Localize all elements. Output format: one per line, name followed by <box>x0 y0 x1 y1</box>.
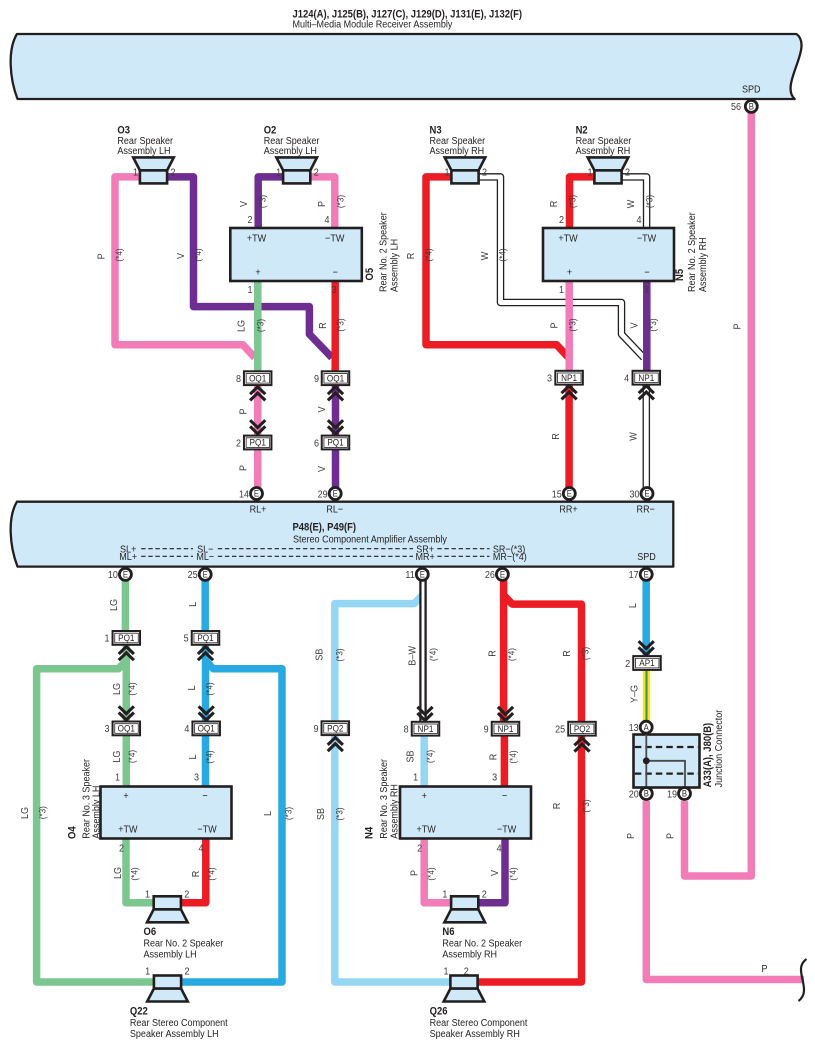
wire R from N2 pin1 to N5 pin2 <box>570 177 595 230</box>
chevron below PQ2 pin9 <box>328 738 343 745</box>
pin 56 circle B on receiver <box>745 100 757 112</box>
internal wire branch to pin19 <box>646 761 685 788</box>
junction connector A33 J80 box <box>634 735 700 788</box>
svg-text:V: V <box>175 253 187 259</box>
svg-text:(*3): (*3) <box>334 807 345 820</box>
wire L from amplifier pin17 to AP1 pin2 <box>642 580 650 657</box>
wire V from O3 pin2 to splice above OQ1 pin9 <box>167 177 333 358</box>
svg-text:30: 30 <box>629 489 640 501</box>
svg-text:B: B <box>682 788 688 799</box>
pin 19 circle B <box>679 788 691 800</box>
wire LG from amplifier pin10 to PQ1 pin1 <box>122 580 130 631</box>
wire P from N4 pin2 to N6 pin1 <box>424 839 451 903</box>
svg-text:(*4): (*4) <box>427 648 438 661</box>
connector PQ2 pin25 <box>568 722 596 736</box>
svg-text:20: 20 <box>629 789 640 801</box>
svg-text:4: 4 <box>184 724 190 736</box>
svg-text:P: P <box>316 201 328 207</box>
chevron above AP1 pin2 <box>639 647 654 654</box>
svg-text:O6: O6 <box>144 927 157 939</box>
svg-text:E: E <box>644 488 650 499</box>
svg-text:−TW: −TW <box>325 233 345 245</box>
svg-text:E: E <box>333 488 339 499</box>
svg-text:P: P <box>625 833 637 839</box>
svg-text:−: − <box>502 790 508 802</box>
box O4 Rear No.3 Speaker Assembly LH <box>101 787 232 839</box>
svg-text:N4: N4 <box>364 827 376 839</box>
chevron below PQ2 pin25 <box>574 738 589 745</box>
svg-text:(*4): (*4) <box>192 248 203 261</box>
svg-text:LG: LG <box>236 320 248 332</box>
box N5 Rear No.2 Speaker Assembly RH <box>543 228 674 281</box>
svg-text:B: B <box>749 101 755 112</box>
svg-text:1: 1 <box>443 966 448 978</box>
svg-text:+TW: +TW <box>247 233 267 245</box>
wire L from amplifier pin25 to PQ1 pin5 <box>201 580 209 631</box>
svg-text:(*3): (*3) <box>335 318 346 331</box>
wire LG from PQ1 pin1 to O4 pin1 <box>123 645 131 788</box>
connector PQ1 pin6 <box>322 436 350 450</box>
wire V from O2 pin1 to O5 pin2 <box>258 177 283 230</box>
svg-text:4: 4 <box>497 843 503 855</box>
svg-text:P: P <box>238 408 250 414</box>
svg-text:P: P <box>409 870 421 876</box>
svg-text:3: 3 <box>643 284 649 296</box>
wire L branch from splice to Q22 pin2 <box>181 661 282 983</box>
svg-text:NP1: NP1 <box>498 723 514 734</box>
svg-text:B: B <box>644 788 650 799</box>
receiver assembly J124-J132 bus bar <box>11 34 802 99</box>
svg-text:O5: O5 <box>364 268 376 281</box>
wire R from NP1 pin3 to amplifier pin15 <box>565 384 573 489</box>
pin 11 circle E <box>416 568 428 580</box>
svg-text:1: 1 <box>413 772 418 784</box>
svg-text:P48(E), P49(F): P48(E), P49(F) <box>293 522 357 534</box>
svg-text:E: E <box>500 569 506 580</box>
svg-text:Y–G: Y–G <box>629 685 641 703</box>
svg-text:(*4): (*4) <box>497 248 508 261</box>
svg-text:1: 1 <box>442 889 447 901</box>
svg-text:R: R <box>548 201 560 208</box>
svg-text:E: E <box>123 569 129 580</box>
chevron below PQ1 pin5 <box>198 647 213 654</box>
dashed link ML row <box>141 555 193 557</box>
svg-text:19: 19 <box>667 789 677 801</box>
connector NP1 pin9 <box>492 722 520 736</box>
svg-text:9: 9 <box>484 724 489 736</box>
connector AP1 pin2 <box>633 656 661 670</box>
svg-text:L: L <box>262 810 274 816</box>
svg-text:3: 3 <box>547 373 553 385</box>
connector PQ1 pin5 <box>192 631 220 645</box>
svg-text:(*4): (*4) <box>204 682 215 695</box>
svg-text:Q22: Q22 <box>130 1006 148 1018</box>
svg-text:E: E <box>567 488 573 499</box>
svg-text:ML−: ML− <box>196 552 214 564</box>
junction splice dot <box>643 757 650 764</box>
pin 25 circle E <box>199 568 211 580</box>
svg-text:O4: O4 <box>67 826 79 839</box>
svg-text:(*3): (*3) <box>567 318 578 331</box>
svg-text:2: 2 <box>119 843 124 855</box>
svg-text:V: V <box>238 201 250 207</box>
svg-text:(*4): (*4) <box>129 867 140 880</box>
svg-text:L: L <box>628 603 640 609</box>
svg-text:(*4): (*4) <box>127 682 138 695</box>
svg-text:2: 2 <box>314 167 319 179</box>
dashed bus line 1 in junction <box>635 746 698 748</box>
amplifier P48 P49 bus bar <box>11 502 674 567</box>
wire R from O5 pin3 to OQ1 pin9 <box>331 280 339 371</box>
svg-text:R: R <box>405 253 417 260</box>
svg-text:14: 14 <box>239 489 250 501</box>
svg-text:LG: LG <box>19 807 31 819</box>
svg-text:P: P <box>665 833 677 839</box>
svg-text:(*3): (*3) <box>567 195 578 208</box>
svg-text:SPD: SPD <box>742 84 761 96</box>
svg-text:4: 4 <box>624 373 630 385</box>
svg-text:E: E <box>644 569 650 580</box>
svg-text:(*4): (*4) <box>425 867 436 880</box>
wire B&#8211;W from amplifier pin11 to NP1 pin8 <box>419 580 427 722</box>
svg-text:RR−: RR− <box>637 504 656 516</box>
svg-text:OQ1: OQ1 <box>249 373 266 384</box>
svg-text:(*3): (*3) <box>283 807 294 820</box>
svg-text:(*4): (*4) <box>507 750 518 763</box>
svg-text:(*3): (*3) <box>37 806 48 819</box>
svg-text:2: 2 <box>482 167 487 179</box>
svg-text:P: P <box>549 322 561 328</box>
svg-text:(*3): (*3) <box>580 647 591 660</box>
svg-text:2: 2 <box>625 658 630 670</box>
svg-text:P: P <box>96 253 108 259</box>
chevron below NP1 pin4 <box>639 386 654 393</box>
wire V between OQ1 pin9 and PQ1 pin6 <box>332 385 340 436</box>
svg-text:26: 26 <box>485 570 496 582</box>
svg-text:L: L <box>187 754 199 760</box>
speaker N2 <box>588 157 629 170</box>
svg-text:2: 2 <box>185 966 190 978</box>
wire P from junction pin20 to right edge <box>646 801 804 980</box>
svg-text:LG: LG <box>112 867 124 879</box>
svg-text:13: 13 <box>629 722 640 734</box>
svg-text:SB: SB <box>314 648 326 660</box>
svg-text:−: − <box>202 790 208 802</box>
svg-text:2: 2 <box>247 214 252 226</box>
svg-text:10: 10 <box>108 570 119 582</box>
svg-text:Assembly RH: Assembly RH <box>697 237 709 292</box>
pin 29 circle E <box>329 488 341 500</box>
speaker N6 <box>444 909 485 922</box>
svg-text:2: 2 <box>417 843 422 855</box>
svg-text:Speaker Assembly LH: Speaker Assembly LH <box>130 1028 219 1040</box>
svg-text:W: W <box>625 199 637 208</box>
svg-text:(*3): (*3) <box>257 195 268 208</box>
svg-text:−: − <box>644 267 650 279</box>
wire V from N4 pin4 to N6 pin2 <box>478 839 505 903</box>
pin 26 circle E <box>496 568 508 580</box>
svg-text:(*4): (*4) <box>506 648 517 661</box>
pin 10 circle E <box>119 568 131 580</box>
svg-text:LG: LG <box>112 683 124 695</box>
svg-text:E: E <box>203 569 209 580</box>
svg-text:SB: SB <box>315 808 327 820</box>
svg-text:NP1: NP1 <box>561 372 577 383</box>
svg-text:LG: LG <box>108 599 120 611</box>
wire LG from O5 pin1 to OQ1 pin8 <box>254 280 262 371</box>
wire L from PQ1 pin5 to O4 pin3 <box>202 645 210 788</box>
svg-text:2: 2 <box>464 966 469 978</box>
svg-text:+TW: +TW <box>558 233 578 245</box>
svg-text:Speaker Assembly RH: Speaker Assembly RH <box>430 1028 520 1040</box>
svg-text:Q26: Q26 <box>430 1006 448 1018</box>
svg-text:(*3): (*3) <box>334 648 345 661</box>
svg-text:W: W <box>628 432 640 441</box>
wire R from N3 pin1 to splice above NP1 pin3 <box>426 177 569 358</box>
svg-text:1: 1 <box>247 284 252 296</box>
wire R branch from splice to PQ2 pin25 <box>504 595 582 721</box>
connector OQ1 pin8 <box>244 371 272 385</box>
connector OQ1 pin4 <box>192 722 220 736</box>
svg-text:1: 1 <box>276 167 281 179</box>
wire P between OQ1 pin8 and PQ1 pin2 <box>254 385 262 436</box>
dashed bus line 2 in junction <box>635 772 698 774</box>
svg-text:RL−: RL− <box>326 504 343 516</box>
wire P from PQ1 pin2 to amplifier pin14 <box>254 450 262 490</box>
svg-text:(*3): (*3) <box>580 799 591 812</box>
chevron above OQ1 pin4 <box>199 713 214 720</box>
svg-text:PQ2: PQ2 <box>574 723 590 734</box>
svg-text:8: 8 <box>236 373 242 385</box>
svg-text:+: + <box>123 790 129 802</box>
svg-text:2: 2 <box>625 167 630 179</box>
svg-text:(*3): (*3) <box>647 318 658 331</box>
svg-text:PQ1: PQ1 <box>250 437 266 448</box>
svg-text:2: 2 <box>482 889 487 901</box>
svg-text:1: 1 <box>104 633 109 645</box>
svg-text:E: E <box>420 569 426 580</box>
wire V from PQ1 pin6 to amplifier pin29 <box>332 450 340 490</box>
svg-text:+TW: +TW <box>118 824 138 836</box>
svg-text:−TW: −TW <box>197 824 217 836</box>
svg-text:NP1: NP1 <box>638 372 654 383</box>
wire R from O4 pin4 to O6 pin2 <box>181 839 206 903</box>
wire SB from PQ2 pin9 to Q26 pin1 <box>335 735 451 982</box>
svg-text:−TW: −TW <box>637 233 657 245</box>
svg-text:9: 9 <box>314 373 319 385</box>
svg-text:(*4): (*4) <box>126 750 137 763</box>
pin 17 circle E <box>640 568 652 580</box>
pin 14 circle E <box>251 488 263 500</box>
svg-text:+: + <box>255 267 261 279</box>
svg-text:56: 56 <box>731 102 742 114</box>
svg-text:AP1: AP1 <box>639 658 654 669</box>
svg-text:(*3): (*3) <box>335 195 346 208</box>
connector OQ1 pin3 <box>113 722 141 736</box>
svg-text:N5: N5 <box>674 269 686 281</box>
chevron above NP1 pin9 <box>498 713 513 720</box>
svg-text:P: P <box>238 465 250 471</box>
svg-text:1: 1 <box>145 966 150 978</box>
svg-text:3: 3 <box>492 772 498 784</box>
svg-text:+TW: +TW <box>416 824 436 836</box>
wire Y&#8211;G from AP1 pin2 to junction pin13 <box>643 670 651 721</box>
speaker O3 <box>133 157 174 170</box>
svg-text:17: 17 <box>629 570 639 582</box>
svg-text:SPD: SPD <box>637 552 656 564</box>
speaker O6 <box>147 909 188 922</box>
svg-text:Assembly LH: Assembly LH <box>264 146 317 158</box>
svg-text:PQ1: PQ1 <box>327 437 343 448</box>
svg-text:R: R <box>550 433 562 440</box>
svg-text:RL+: RL+ <box>250 504 267 516</box>
pin 30 circle E <box>641 488 653 500</box>
connector NP1 pin8 <box>412 722 440 736</box>
wire W from NP1 pin4 to amplifier pin30 <box>643 384 651 489</box>
wire SB branch from amplifier pin11 to PQ2 pin9 <box>335 594 424 721</box>
chevron above OQ1 pin3 <box>119 713 134 720</box>
svg-text:25: 25 <box>188 570 199 582</box>
connector PQ2 pin9 <box>322 721 350 735</box>
svg-text:LG: LG <box>112 751 124 763</box>
svg-text:4: 4 <box>324 214 330 226</box>
svg-text:(*4): (*4) <box>113 248 124 261</box>
svg-text:11: 11 <box>405 570 414 582</box>
wire SB from NP1 pin8 to N4 pin1 <box>420 736 428 788</box>
svg-text:Assembly RH: Assembly RH <box>389 784 401 839</box>
svg-text:2: 2 <box>171 167 176 179</box>
chevron below OQ1 pin9 <box>328 387 343 394</box>
svg-text:P: P <box>732 323 744 329</box>
svg-text:B–W: B–W <box>407 645 419 665</box>
wire P from O3 pin1 to splice above OQ1 pin8 <box>115 177 255 358</box>
pin 13 circle A <box>640 721 652 733</box>
svg-text:V: V <box>316 406 328 412</box>
dashed link SL row <box>141 548 193 550</box>
svg-text:8: 8 <box>404 724 410 736</box>
svg-text:OQ1: OQ1 <box>198 723 215 734</box>
svg-text:3: 3 <box>331 284 337 296</box>
wire R from PQ2 pin25 to Q26 pin2 <box>478 735 582 982</box>
svg-text:9: 9 <box>313 723 318 735</box>
chevron above NP1 pin8 <box>417 713 432 720</box>
svg-text:V: V <box>629 322 641 328</box>
svg-text:1: 1 <box>145 889 150 901</box>
svg-text:15: 15 <box>552 489 563 501</box>
svg-text:R: R <box>488 754 500 761</box>
chevron above PQ1 pin2 <box>250 426 265 433</box>
box O5 Rear No.2 Speaker Assembly LH <box>230 228 361 281</box>
svg-text:N6: N6 <box>442 927 454 939</box>
speaker Q22 <box>147 989 188 1002</box>
svg-text:+: + <box>422 790 428 802</box>
chevron below NP1 pin3 <box>562 386 577 393</box>
svg-text:E: E <box>254 488 260 499</box>
chevron above PQ1 pin6 <box>328 426 343 433</box>
svg-text:RR+: RR+ <box>559 504 578 516</box>
svg-text:PQ2: PQ2 <box>327 723 343 734</box>
wire P SPD from receiver pin56 to junction connector pin19 <box>685 112 752 876</box>
svg-text:L: L <box>186 685 198 691</box>
svg-text:6: 6 <box>314 438 320 450</box>
svg-text:1: 1 <box>587 167 592 179</box>
svg-text:Assembly LH: Assembly LH <box>91 786 103 839</box>
speaker N3 <box>445 157 486 170</box>
svg-text:Assembly LH: Assembly LH <box>117 146 170 158</box>
svg-text:25: 25 <box>555 724 566 736</box>
connector PQ1 pin1 <box>113 631 141 645</box>
svg-text:4: 4 <box>198 843 204 855</box>
svg-text:Assembly RH: Assembly RH <box>576 146 631 158</box>
svg-text:PQ1: PQ1 <box>197 632 213 643</box>
svg-text:OQ1: OQ1 <box>327 373 344 384</box>
speaker O2 <box>276 157 317 170</box>
svg-text:1: 1 <box>444 167 449 179</box>
svg-text:−TW: −TW <box>497 824 517 836</box>
svg-text:1: 1 <box>559 284 564 296</box>
chevron below OQ1 pin8 <box>250 387 265 394</box>
svg-text:Assembly RH: Assembly RH <box>442 949 497 961</box>
connector OQ1 pin9 <box>322 371 350 385</box>
connector NP1 pin3 <box>555 371 583 385</box>
svg-text:ML+: ML+ <box>119 552 137 564</box>
svg-text:(*4): (*4) <box>423 248 434 261</box>
svg-text:(*3): (*3) <box>644 195 655 208</box>
svg-text:V: V <box>316 466 328 472</box>
svg-text:L: L <box>187 601 199 607</box>
svg-text:4: 4 <box>636 214 642 226</box>
svg-text:1: 1 <box>133 167 138 179</box>
svg-text:3: 3 <box>104 724 110 736</box>
svg-text:R: R <box>551 803 563 810</box>
wire V from N5 pin3 to NP1 pin4 <box>643 280 651 371</box>
wire R from amplifier pin26 to NP1 pin9 <box>500 580 508 722</box>
chevron below PQ1 pin1 <box>119 647 134 654</box>
speaker Q26 <box>444 989 485 1002</box>
svg-text:2: 2 <box>184 889 189 901</box>
svg-text:(*4): (*4) <box>507 867 518 880</box>
svg-text:V: V <box>489 870 501 876</box>
connector PQ1 pin2 <box>244 436 272 450</box>
wire LG branch from splice to Q22 pin1 <box>37 661 154 983</box>
pin 20 circle B <box>640 788 652 800</box>
svg-text:P: P <box>761 963 767 975</box>
wire P from O2 pin2 to O5 pin4 <box>310 177 335 230</box>
svg-text:Assembly LH: Assembly LH <box>144 949 197 961</box>
svg-text:Assembly RH: Assembly RH <box>430 146 485 158</box>
connector NP1 pin4 <box>633 371 661 385</box>
svg-text:Assembly LH: Assembly LH <box>389 239 401 292</box>
svg-text:MR−(*4): MR−(*4) <box>493 552 527 564</box>
svg-text:R: R <box>317 322 329 329</box>
break symbol on P wire <box>799 959 807 1001</box>
wire W from N2 pin2 to N5 pin4 <box>622 177 647 230</box>
svg-text:Junction Connector: Junction Connector <box>713 709 725 787</box>
svg-text:Multi–Media Module Receiver As: Multi–Media Module Receiver Assembly <box>293 19 453 31</box>
wire W from N3 pin2 to splice above NP1 pin4 <box>479 177 644 358</box>
svg-text:NP1: NP1 <box>418 723 434 734</box>
svg-text:SB: SB <box>405 750 417 762</box>
svg-text:(*4): (*4) <box>206 867 217 880</box>
svg-text:W: W <box>479 251 491 260</box>
pin 15 circle E <box>563 488 575 500</box>
svg-text:(*3): (*3) <box>255 319 266 332</box>
svg-text:−: − <box>333 267 339 279</box>
wire P from N5 pin1 to NP1 pin3 <box>565 280 573 371</box>
svg-text:R: R <box>190 871 202 878</box>
svg-text:5: 5 <box>184 633 190 645</box>
wire R from NP1 pin9 to N4 pin3 <box>501 736 509 788</box>
